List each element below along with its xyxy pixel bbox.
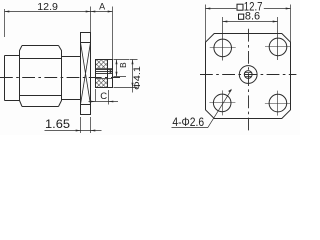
- svg-text:B: B: [118, 62, 128, 68]
- svg-text:4-Φ2.6: 4-Φ2.6: [172, 115, 204, 129]
- svg-text:12.9: 12.9: [37, 1, 58, 13]
- svg-text:C: C: [100, 91, 107, 102]
- svg-text:8.6: 8.6: [245, 10, 260, 22]
- svg-text:1.65: 1.65: [45, 117, 70, 131]
- svg-text:A: A: [99, 2, 105, 12]
- svg-text:Φ4.1: Φ4.1: [132, 66, 143, 90]
